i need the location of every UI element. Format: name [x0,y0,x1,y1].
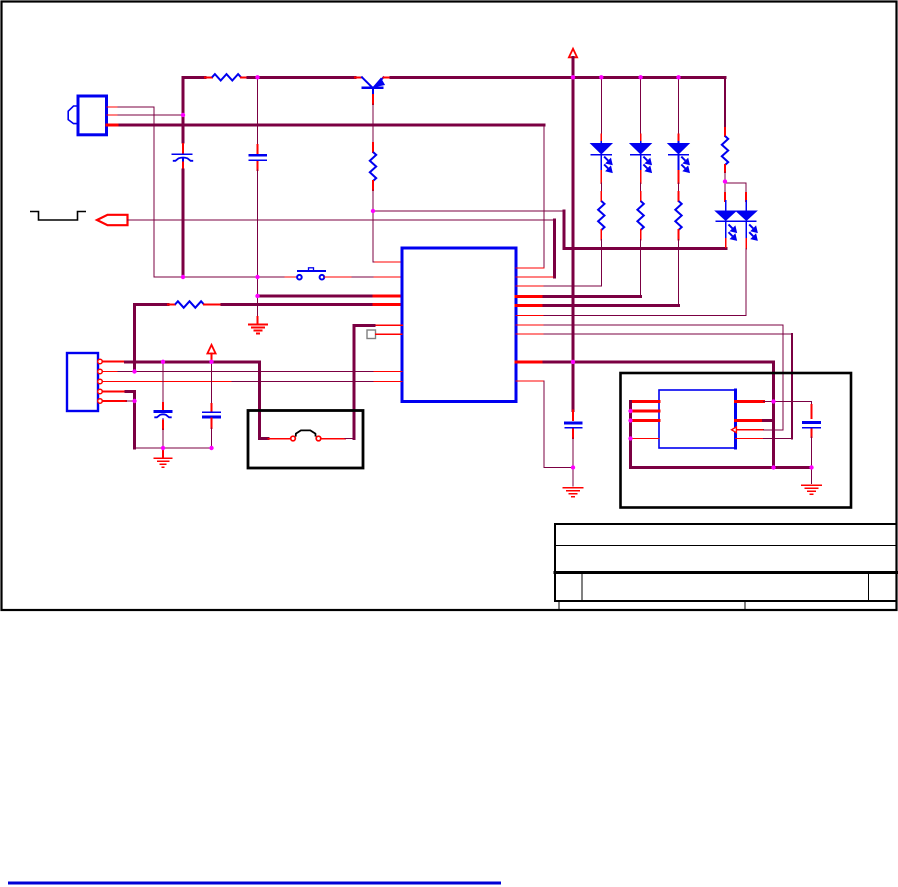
ground GND4 module [811,468,813,484]
wire IR pin2 to VCC column [107,114,118,116]
wire rail to transistor [248,76,355,79]
footer underline bar [8,882,501,885]
LED D3 [678,77,680,134]
fuse enclosure box [248,411,363,469]
resistor R7 [640,171,642,183]
ground GND1 [248,324,268,326]
wire dual LED anode bridge [725,182,746,184]
LED D4 [724,182,726,194]
wire IR pin1 to GND line [107,106,118,108]
wire LED1 cathode to IC [600,240,602,287]
wire base node [372,190,374,262]
wire LED3 cathode to IC [678,240,680,306]
connector J1 [67,353,98,411]
wire IC pin LED1 drive [516,285,544,287]
wire VCC rail right segment [391,76,725,79]
power arrow VCC1 [569,49,577,58]
wire gnd stub [257,277,259,296]
LED D1 [600,77,602,134]
wire VCC rail left segment [183,76,205,79]
capacitor C5 bulk [572,411,574,421]
wire VCC vertical [572,57,575,410]
wire D5 cathode down [745,222,747,239]
wire IC pin LED2 drive [516,295,544,298]
wire IC pin to module data [516,333,544,335]
ground GND3 [572,468,574,487]
wire R3 to connector pin2 [133,305,136,372]
wire connector pin4 gnd [103,391,127,393]
module int pin arrow [732,427,737,433]
ground GND2 [162,448,164,457]
wire connector pin1 VCC row [103,361,126,363]
wire module pin2 to gnd bus [736,419,764,422]
title block outline [554,524,556,601]
resistor R5 right column [724,77,726,128]
wire Q1 base [372,95,374,104]
wire pushbutton to IC [325,276,353,278]
power arrow VCC2 [207,345,215,354]
wire IC pin to flag net [516,276,553,278]
wire IC pin to IR rail [516,267,544,269]
transistor Q1 [355,76,362,78]
no-connect port square [367,330,376,339]
capacitor C2 [257,145,259,153]
IR receiver U2 [78,96,107,135]
wire VCC column [182,77,185,142]
capacitor C1 electrolytic [182,144,184,153]
resistor R2 [372,143,374,152]
wire cap C1 to ground line [182,170,185,277]
wire IC gnd pin line [258,295,375,298]
wire VCC from fuse to IC [374,324,402,326]
wire base node to LED return rail [373,210,564,212]
wire gnd bottom run [135,447,212,449]
wire IC pin LED3 drive [516,304,544,307]
resistor R8 [678,171,680,183]
junction dots overlay [255,75,259,79]
wire connector pin3 line [103,381,233,383]
wire LED2 cathode to IC [640,240,642,297]
resistor R1 [205,76,212,78]
net flag IR input [97,215,128,225]
fuse F1 [268,438,290,440]
capacitor C6 module [811,402,813,406]
wire D4 cathode to return rail [725,222,727,239]
microcontroller U1 [402,248,516,402]
dual LED cathode bar [715,220,756,222]
resistor R6 [600,171,602,183]
wire module vcc pin [736,400,764,403]
wire flag to IC [128,219,555,221]
wire IC vcc to module vcc [516,360,544,363]
wire module gnd bus [631,466,812,469]
capacitor C3 electrolytic [162,362,164,403]
module enclosure box [621,373,852,508]
wire IC pin to module int [516,324,544,326]
wire IR pin3 output rail [107,124,120,127]
wire sense line / resistor R3 [135,303,169,306]
pulse waveform symbol [30,212,86,221]
wire resistor node down [257,77,259,145]
wire cap C2 to ground line [257,170,259,277]
capacitor C4 [211,362,213,404]
sheet border frame [2,2,897,611]
wire module data pin [736,438,764,440]
wire ground line [154,276,285,278]
module IC U3 [659,390,736,448]
wire module left pins to gnd [631,400,660,403]
wire IC gnd return [516,380,544,382]
wire IC pin LED5 drive [516,315,544,317]
LED D2 [640,77,642,134]
wire LED return rail [564,247,726,250]
wire connector pin5 gnd [103,400,127,402]
wire base node to IC [373,261,375,263]
LED D5 [745,183,747,193]
wire connector pin2 line [103,371,119,373]
pushbutton S1 [285,276,297,278]
